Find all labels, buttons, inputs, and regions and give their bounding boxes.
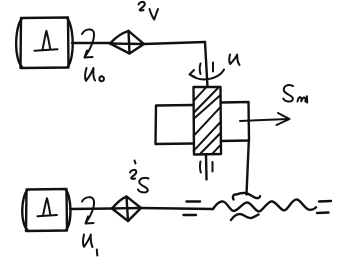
- ticks below piston: [199, 162, 202, 173]
- label iV: [139, 2, 159, 20]
- pulse symbol inside G1: [35, 49, 58, 51]
- wire right block down to wavy line: [247, 141, 249, 195]
- wire corner down to piston: [205, 42, 208, 87]
- label u1: [83, 235, 97, 256]
- right block of piston: [221, 102, 249, 141]
- generator G2 (bottom-left source box): [22, 189, 70, 231]
- wire G1 to valve V: [72, 42, 110, 44]
- pulse symbol inside G2: [38, 215, 58, 216]
- lower squiggle at junction: [231, 214, 259, 220]
- valve S (crossed diamond): [111, 195, 141, 222]
- wire G2 to valve S: [70, 207, 112, 210]
- generator G1 (top-left source box): [16, 18, 73, 69]
- voltage arrow u0: [82, 29, 94, 57]
- hatch lines: [194, 88, 207, 102]
- left block of piston: [156, 105, 194, 144]
- label u0: [85, 68, 104, 81]
- reference dashes (right): [317, 201, 331, 213]
- displacement arrow S: [240, 113, 290, 125]
- wire valve S to wavy line: [141, 208, 213, 209]
- reference dashes (left): [184, 202, 201, 216]
- wire valve V to corner: [144, 42, 205, 44]
- label Sm: [283, 85, 307, 103]
- rotation arrow (top of piston): [190, 70, 225, 80]
- piston (hatched element): [194, 87, 222, 155]
- wavy line (liquid surface wire): [213, 199, 316, 211]
- brush ticks above piston: [199, 64, 202, 75]
- upper squiggle at junction: [233, 193, 260, 200]
- wire below piston: [205, 155, 208, 180]
- valve V (crossed diamond): [109, 30, 144, 55]
- label u (rotation): [229, 55, 239, 66]
- label iS: [130, 161, 149, 193]
- voltage arrow u1: [82, 197, 94, 223]
